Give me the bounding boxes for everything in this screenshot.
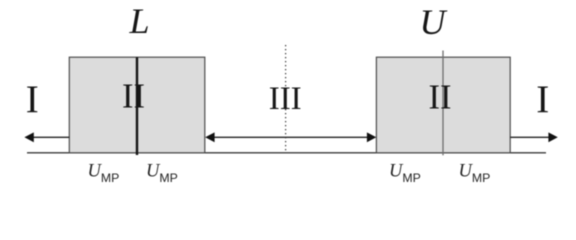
left arrow: [24, 132, 69, 142]
dotted midline: [285, 45, 287, 152]
svg-text:II: II: [429, 78, 452, 116]
box U divider (thin gray, extends above top): [442, 51, 444, 156]
box L (left chamber): [69, 57, 205, 153]
svg-text:II: II: [122, 77, 145, 115]
svg-text:III: III: [269, 81, 302, 117]
middle double arrow: [205, 132, 376, 142]
box L divider (thick black): [136, 57, 138, 155]
svg-text:I: I: [26, 78, 39, 121]
right arrow: [510, 132, 558, 142]
axis line: [27, 152, 546, 154]
svg-text:L: L: [128, 1, 149, 41]
svg-text:U: U: [420, 2, 448, 42]
svg-text:I: I: [536, 78, 549, 121]
box U (right chamber): [376, 57, 510, 153]
